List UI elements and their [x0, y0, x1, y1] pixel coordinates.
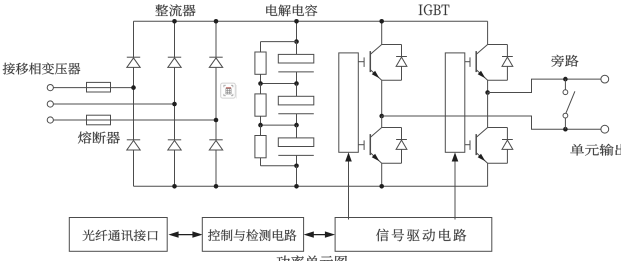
block: fiber-optic comms interface 光纤通讯接口 — [69, 218, 167, 252]
junction: midpoint V (right leg) — [485, 90, 490, 95]
resistor R3 (balancing) — [255, 125, 266, 166]
label: IGBT — [419, 4, 450, 15]
antiparallel diode of IGBT V3 (right leg, upper) — [488, 45, 513, 81]
wire: rectifier leg 1 vertical — [133, 21, 135, 57]
label: to phase-shift transformer 接移相变压器 — [3, 63, 81, 75]
wire: upper contact lead — [564, 79, 566, 90]
wire: phase A to rectifier leg 1 — [53, 87, 133, 89]
label: bypass 旁路 — [551, 55, 578, 67]
wire: leg A top feed — [381, 21, 383, 44]
wire: leg A midpoint-to-lower — [381, 116, 383, 128]
IGBT V3 (right leg, upper) — [465, 45, 488, 81]
label: rectifier 整流器 — [155, 4, 195, 16]
wire: cap bank bottom link — [261, 165, 297, 167]
junction: C column node 2 — [294, 81, 299, 86]
diode D6 (lower, leg 3) — [209, 139, 222, 141]
junction: phase A / leg 1 — [131, 85, 136, 90]
resistor R1 (balancing) — [255, 42, 266, 84]
capacitor C3 (electrolytic) — [278, 125, 314, 166]
wire: leg A bottom feed — [381, 163, 383, 186]
wire: phase C to rectifier leg 3 — [53, 119, 216, 121]
junction: phase C / leg 3 — [214, 118, 219, 123]
wire: leg B midpoint-to-lower — [487, 93, 489, 128]
diode D3 (upper, leg 3) — [209, 56, 222, 58]
bypass contact upper — [563, 90, 568, 95]
arrowhead: left drive signal — [345, 152, 352, 161]
wire: midpoint V to upper output — [488, 79, 601, 92]
double arrow: box2-box3 — [304, 231, 336, 237]
junction: leg A on -bus — [379, 184, 384, 189]
capacitor C2 (electrolytic) — [278, 84, 314, 126]
antiparallel diode of IGBT V1 (left leg, upper) — [382, 45, 407, 81]
wire: rectifier leg 3 vertical — [215, 21, 217, 57]
diode D4 (lower, leg 1) — [127, 139, 140, 141]
input terminal A — [47, 85, 53, 91]
wire: drive signal to right driver — [454, 161, 456, 220]
wire: leg A upper-to-midpoint — [381, 80, 383, 116]
junction: C column node 3 — [294, 123, 299, 128]
bypass contact lower — [563, 113, 568, 118]
block: control & detection circuit 控制与检测电路 — [202, 218, 303, 252]
label: fuse 熔断器 — [78, 132, 120, 144]
junction: cap feed on +bus — [294, 19, 299, 24]
antiparallel diode of IGBT V2 (left leg, lower) — [382, 128, 407, 164]
wire: leg B upper-to-midpoint — [487, 80, 489, 92]
wire: rectifier leg 2 vertical — [174, 21, 176, 57]
label: electrolytic capacitor 电解电容 — [266, 5, 317, 17]
arrowhead: right drive signal — [452, 152, 459, 161]
diode D2 (upper, leg 2) — [168, 56, 181, 58]
label: unit output 单元输出 — [570, 144, 621, 156]
wire: drive signal to left driver — [348, 161, 350, 220]
wire: cap bank top feed — [296, 21, 298, 41]
junction: leg 3 on +bus — [214, 19, 219, 24]
wire: node1 cross link — [261, 41, 297, 43]
capacitor C1 (electrolytic) — [278, 42, 314, 84]
wire: leg B bottom feed — [487, 163, 489, 186]
wire: lower contact lead — [564, 118, 566, 129]
input terminal C — [47, 117, 53, 123]
wire: leg B top feed — [487, 21, 489, 44]
junction: leg 2 on -bus — [172, 184, 177, 189]
junction: cap bank node 1 — [294, 39, 299, 44]
resistor R2 (balancing) — [255, 84, 266, 126]
double arrow: box1-box2 — [168, 231, 202, 237]
wire: positive DC bus — [134, 20, 488, 22]
input terminal B — [47, 101, 53, 107]
junction: cap bank bottom node — [294, 164, 299, 169]
junction: R column node 3 — [258, 123, 263, 128]
gate driver bar (right leg) — [445, 53, 465, 152]
junction: R column node 2 — [258, 81, 263, 86]
wire: cap bank cross link 3 — [261, 124, 297, 126]
wire: cap bank cross link 2 — [261, 83, 297, 85]
junction: bypass tap lower — [563, 127, 568, 132]
junction: midpoint U (left leg) — [379, 114, 384, 119]
output terminal upper — [601, 75, 609, 83]
wire: phase B to rectifier leg 2 — [53, 103, 174, 105]
fuse FU1 — [87, 82, 111, 92]
antiparallel diode of IGBT V4 (right leg, lower) — [488, 128, 513, 164]
wire: negative DC bus — [134, 185, 488, 187]
junction: leg 2 on +bus — [172, 19, 177, 24]
caption: 功率单元图 (clipped at bottom) — [277, 255, 348, 261]
bypass switch blade — [566, 91, 575, 113]
wire: cap bank bottom feed — [296, 166, 298, 187]
junction: bypass tap upper — [563, 77, 568, 82]
junction: leg 3 on -bus — [214, 184, 219, 189]
diode D1 (upper, leg 1) — [127, 56, 140, 58]
block: signal drive circuit 信号驱动电路 — [335, 218, 492, 252]
IGBT V2 (left leg, lower) — [358, 128, 381, 164]
diode D5 (lower, leg 2) — [168, 139, 181, 141]
IGBT V4 (right leg, lower) — [465, 128, 488, 164]
fuse FU2 — [87, 115, 111, 125]
gate driver bar (left leg) — [339, 53, 359, 152]
junction: leg A on +bus — [379, 19, 384, 24]
IGBT V1 (left leg, upper) — [358, 45, 381, 81]
junction: cap feed on -bus — [294, 184, 299, 189]
embedded-object placeholder icon — [221, 83, 237, 98]
junction: phase B / leg 2 — [172, 102, 177, 107]
output terminal lower — [601, 125, 609, 133]
wire: midpoint U to lower output — [382, 116, 601, 129]
